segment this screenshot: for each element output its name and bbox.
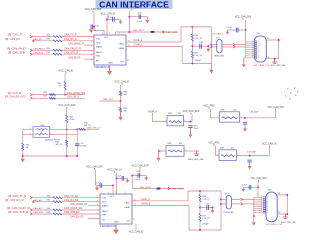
- wire CANL exit: [211, 44, 216, 46]
- ground below U31: [107, 65, 112, 75]
- ground shield row left: [157, 151, 161, 161]
- power net VCC_CAN_SUP (bottom): [132, 164, 149, 168]
- wire term2 right rail: [220, 191, 222, 230]
- resistor series CAN_TX_M: [53, 197, 62, 199]
- svg-text:CAN_WAKE_R: CAN_WAKE_R: [68, 42, 84, 45]
- wire divider1 mid: [120, 96, 122, 108]
- ESD suppressor Z31: [217, 39, 222, 53]
- wire term mid to cap: [192, 45, 208, 47]
- wire CANH2 to flag: [231, 203, 240, 205]
- svg-text:8: 8: [267, 210, 268, 212]
- svg-text:VCC_CAN_SUP: VCC_CAN_SUP: [59, 104, 76, 107]
- power net VCC_CAN_SUP (top): [123, 6, 140, 10]
- wire VCC to J32 bundle: [257, 182, 259, 198]
- L31 pin numbers: [30, 128, 52, 136]
- wire VCC_PRO to R39: [211, 109, 220, 118]
- wire divider1 bottom: [120, 112, 122, 117]
- svg-text:CANH: CANH: [124, 206, 130, 209]
- resistor R35 pulldown: [120, 108, 122, 113]
- svg-text:5: 5: [267, 205, 268, 207]
- svg-text:5: 5: [91, 45, 92, 47]
- wire CANL2 to bundle: [243, 198, 254, 200]
- resistor R45: [22, 143, 24, 150]
- svg-text:7: 7: [115, 192, 116, 194]
- wire VCC_PRO to R40: [216, 146, 219, 156]
- ground at C29: [119, 20, 123, 25]
- flag CAN_TERM: [162, 31, 164, 33]
- svg-text:CAN_TERM: CAN_TERM: [166, 31, 178, 34]
- wire CAN_FAULT_R2 to U pin: [62, 209, 100, 211]
- svg-text:2: 2: [258, 43, 259, 45]
- junction shield top: [278, 39, 280, 41]
- junction divider2: [64, 94, 66, 96]
- wire CAN_STB stub: [100, 100, 121, 102]
- power net VCC_CAN_SUP (choke): [59, 104, 76, 108]
- svg-text:CAN_TERM: CAN_TERM: [172, 188, 184, 191]
- svg-text:CANH_1: CANH_1: [134, 44, 144, 47]
- flag HS_CAN_L: [233, 43, 235, 45]
- svg-text:TJA1043TK/UX: TJA1043TK/UX: [100, 225, 116, 228]
- svg-text:7: 7: [258, 54, 259, 56]
- svg-text:6: 6: [267, 206, 268, 208]
- wire C39 branch: [117, 177, 128, 179]
- wire CANH corner down: [181, 46, 183, 63]
- flag CAN_TX_M: [30, 197, 32, 199]
- wire CANH to flag: [222, 46, 233, 48]
- wire CANH net: [126, 45, 182, 47]
- ground at C38: [95, 186, 99, 191]
- wire CANL corner up: [180, 27, 182, 42]
- svg-text:VCC_CAN_5V0: VCC_CAN_5V0: [86, 165, 103, 168]
- resistor R34 pullup: [120, 91, 122, 96]
- wire VSUP_F to R38: [152, 115, 167, 122]
- ground term bottom: [209, 67, 213, 74]
- wire CANL net: [126, 41, 181, 43]
- wire CAN_TX to resistor: [33, 36, 54, 38]
- power net VCC_CAN_5V0 (connector): [235, 16, 252, 20]
- svg-text:CANL: CANL: [118, 43, 124, 46]
- svg-text:PESD1CAN: PESD1CAN: [214, 55, 224, 58]
- svg-text:S2: S2: [278, 212, 280, 214]
- svg-text:VCC_CAN_SUP: VCC_CAN_SUP: [183, 110, 200, 113]
- svg-text:[R] CAN_TX_M: [R] CAN_TX_M: [8, 194, 26, 198]
- svg-text:9: 9: [252, 57, 253, 59]
- ground at C36: [226, 30, 230, 35]
- svg-text:PESD1CAN: PESD1CAN: [224, 211, 234, 214]
- wire term resistor rail top: [191, 27, 193, 34]
- wire CAN_STB_R to U pin: [62, 53, 94, 55]
- wire C38 branch: [96, 185, 113, 187]
- svg-text:1: 1: [91, 37, 92, 39]
- common mode choke L31: [33, 127, 49, 138]
- svg-text:6: 6: [258, 51, 259, 53]
- resistor R37 termination: [191, 51, 193, 58]
- flag CAN_TERM2: [168, 187, 170, 189]
- wire to VCC_CAN_IO label: [268, 146, 270, 156]
- wire U32 GND stub: [115, 224, 117, 230]
- svg-text:VCC_CAN_IO: VCC_CAN_IO: [101, 13, 116, 16]
- ground term cap: [206, 48, 210, 53]
- power net VCC_CAN_IO (top): [101, 13, 116, 17]
- title CAN INTERFACE: [96, 0, 173, 10]
- ground at C43: [144, 176, 148, 181]
- connector J32 DSUB9: [263, 192, 277, 222]
- resistor R50 termination: [199, 195, 201, 203]
- wire VCC_CAN_SUP rail: [128, 11, 130, 33]
- resistor R27: [49, 97, 55, 99]
- svg-text:0.1uF: 0.1uF: [227, 27, 233, 29]
- svg-text:9: 9: [97, 218, 98, 220]
- wire J31 shield top: [266, 39, 278, 41]
- svg-text:CAN_STB: CAN_STB: [33, 51, 44, 54]
- junction rail/R chain: [66, 155, 68, 157]
- svg-text:2.2K_1%: 2.2K_1%: [195, 55, 203, 57]
- capacitor C28 0.1uF: [91, 24, 93, 29]
- wire SUP chain bottom: [66, 147, 68, 156]
- svg-text:7: 7: [267, 208, 268, 210]
- svg-text:2: 2: [267, 199, 268, 201]
- wire SUP chain mid: [66, 123, 68, 141]
- junction term2 bottom: [199, 229, 201, 231]
- svg-text:CAN_RX: CAN_RX: [33, 38, 42, 41]
- svg-text:VCC_CAN_IO: VCC_CAN_IO: [262, 143, 277, 146]
- wire CAN_FAULT_M to resistor: [33, 209, 54, 211]
- flag CAN_FAULT_M: [30, 209, 32, 211]
- svg-text:CAN_SPLIT: CAN_SPLIT: [140, 186, 153, 189]
- flag CAN_RX: [32, 40, 34, 42]
- wire term2 mid to cap: [200, 207, 213, 209]
- wire CAN_STB_M to resistor: [33, 213, 54, 215]
- svg-text:[R] CAN_IN: [R] CAN_IN: [8, 92, 21, 95]
- wire CAN_TX_M to resistor: [33, 197, 54, 199]
- resistor series CAN_TX: [53, 36, 62, 38]
- ground shield rail: [21, 156, 25, 162]
- svg-text:VCC_CAN_5V0: VCC_CAN_5V0: [267, 106, 284, 109]
- svg-text:0.1uF: 0.1uF: [137, 21, 143, 23]
- svg-text:4: 4: [91, 41, 92, 43]
- svg-text:RXD: RXD: [96, 42, 101, 44]
- wire CANH to bundle: [235, 46, 245, 48]
- svg-text:CAN_SPLIT: CAN_SPLIT: [133, 29, 146, 32]
- wire J32 gnd drop: [253, 216, 255, 222]
- wire CANL to bundle: [235, 44, 245, 46]
- wire term top link: [181, 26, 211, 28]
- svg-text:GND: GND: [108, 63, 113, 65]
- wire CAN_RX_INT row: [33, 97, 85, 99]
- svg-text:[R] CAN_RX_INT0: [R] CAN_RX_INT0: [5, 96, 26, 99]
- svg-text:1: 1: [217, 116, 218, 118]
- shield ground symbol (top connector): [272, 59, 277, 64]
- svg-text:[R] CAN_RX: [R] CAN_RX: [5, 37, 20, 41]
- capacitor C31 10uF: [188, 126, 192, 128]
- svg-text:S1: S1: [267, 38, 269, 40]
- ground at C39: [126, 178, 129, 183]
- wire J32 pin bundle: [253, 197, 255, 216]
- resistor pack R41 box: [166, 145, 184, 156]
- svg-text:CAN_SHLD_F: CAN_SHLD_F: [87, 126, 102, 129]
- capacitor C32 4700pF: [75, 144, 79, 146]
- junction choke top/cap branch: [76, 128, 78, 130]
- ground at C37: [248, 162, 252, 169]
- wire R45 bottom stub: [22, 150, 24, 156]
- svg-text:2.2K_1%: 2.2K_1%: [195, 38, 203, 40]
- wire term2 rail bottom: [199, 222, 201, 231]
- wire CANL to flag: [222, 44, 233, 46]
- svg-text:FAULT: FAULT: [102, 210, 109, 213]
- junction VCC/C36: [245, 29, 247, 31]
- resistor series CAN_RX: [53, 40, 62, 42]
- flag CAN_RX_M: [32, 201, 34, 203]
- svg-text:1: 1: [267, 197, 268, 199]
- wire L31 pin4 out: [49, 128, 99, 130]
- svg-text:CAN_FLT: CAN_FLT: [33, 207, 43, 210]
- wire term right rail: [210, 27, 212, 67]
- wire R39 to VCC_CAN_5V0: [240, 117, 276, 119]
- wire term2 bottom link: [189, 229, 221, 231]
- svg-text:3: 3: [108, 192, 109, 194]
- svg-text:WAKE: WAKE: [102, 205, 109, 208]
- svg-text:[R] CAN_FAULT: [R] CAN_FAULT: [7, 46, 27, 50]
- wire CAN_EN_R2 to U32: [88, 217, 100, 219]
- power net VCC_CAN_IO (row B): [262, 143, 277, 147]
- wire CANH exit: [211, 46, 216, 48]
- junction U32 supply rail: [131, 175, 133, 177]
- wire VCC_CAN_5V0 to U31 pin 3: [94, 13, 104, 36]
- svg-text:VCC_CAN_SUP: VCC_CAN_SUP: [123, 6, 140, 9]
- wire U32 VIO stub: [135, 224, 137, 230]
- wire L31 pin1: [23, 128, 33, 130]
- svg-text:CAN_FAULT: CAN_FAULT: [33, 47, 46, 50]
- power net VSUP_F: [148, 112, 158, 115]
- resistor R32 pullup: [64, 81, 66, 90]
- power net VCC_CAN_5V0 (top): [85, 8, 102, 12]
- svg-text:8: 8: [91, 51, 92, 53]
- svg-text:RXD: RXD: [102, 201, 107, 203]
- shield ground symbol (bottom connector): [283, 214, 288, 218]
- ground term2 cap: [211, 209, 215, 214]
- flag shield row input: [158, 150, 160, 152]
- power net VCC_CAN_SUP (mid): [183, 110, 200, 114]
- ground at C34: [243, 125, 247, 132]
- wire CAN_WAKE_R to U31: [84, 44, 94, 46]
- svg-text:C34 10uF: C34 10uF: [250, 112, 260, 114]
- wire CAN_TX_R to U pin: [62, 36, 94, 38]
- svg-text:SHLD_GND_CAN: SHLD_GND_CAN: [281, 221, 296, 224]
- wire shield bottom rail: [23, 155, 78, 157]
- resistor pack R40 box: [219, 150, 237, 161]
- wire term2 top link: [188, 190, 221, 192]
- svg-text:[R] CAN_STB: [R] CAN_STB: [8, 50, 25, 54]
- svg-text:1: 1: [258, 41, 259, 43]
- svg-text:9: 9: [267, 212, 268, 214]
- wire VCC5V0 rail bottom: [95, 170, 97, 186]
- svg-text:S2: S2: [267, 57, 269, 59]
- junction exit CANH: [210, 46, 212, 48]
- svg-text:VCC_CAN_5V0: VCC_CAN_5V0: [85, 8, 102, 11]
- wire L31 pin2: [23, 134, 33, 136]
- svg-text:WAKE: WAKE: [96, 46, 103, 49]
- svg-text:TXD: TXD: [96, 38, 101, 40]
- power net VCC_PRO (row A): [203, 106, 214, 109]
- resistor pack R39 box: [220, 112, 240, 122]
- svg-text:VCC_CAN_IO: VCC_CAN_IO: [59, 70, 74, 73]
- svg-text:7: 7: [109, 33, 110, 35]
- junction divider1: [120, 100, 122, 102]
- svg-text:3: 3: [267, 201, 268, 203]
- svg-text:S1: S1: [278, 193, 280, 195]
- wire term2 rail top: [199, 191, 201, 195]
- junction shield bottom: [274, 58, 276, 60]
- junction C41/gnd node: [212, 207, 214, 209]
- capacitor C37 10uF: [247, 160, 251, 162]
- wire VCCIO rail bottom: [116, 173, 118, 194]
- svg-text:VCC_CAN_5V0: VCC_CAN_5V0: [235, 16, 252, 19]
- capacitor C35 termination: [200, 44, 202, 49]
- wire CANL2 exit: [221, 198, 226, 200]
- svg-text:36K_1%: 36K_1%: [56, 144, 63, 146]
- svg-text:4700pF: 4700pF: [80, 146, 87, 148]
- svg-text:CON_DSUB_9_M: CON_DSUB_9_M: [265, 224, 282, 226]
- wire CANH2 corner down: [188, 205, 190, 230]
- wire C31 gnd stub: [189, 128, 191, 135]
- capacitor C29 0.1uF: [113, 17, 115, 22]
- svg-text:VCC: VCC: [104, 37, 109, 39]
- junction cap/gnd node: [207, 45, 209, 47]
- svg-text:2.2K_1%: 2.2K_1%: [202, 198, 210, 200]
- ground at C42: [242, 187, 246, 192]
- svg-text:4: 4: [258, 47, 259, 49]
- wire J32 shield top: [277, 194, 287, 196]
- flag HS_CAN_H2: [241, 203, 243, 205]
- wire CANL2 net: [132, 200, 188, 202]
- junction split/VSUP rail: [128, 31, 130, 33]
- red marker cluster: [285, 87, 299, 101]
- svg-text:SHLD_GND_CAN: SHLD_GND_CAN: [188, 158, 204, 161]
- svg-text:EN: EN: [96, 61, 99, 63]
- capacitor C41 termination: [207, 205, 209, 210]
- junction rail left: [22, 155, 24, 157]
- wire shield row right: [184, 150, 199, 152]
- junction choke top/Rchain: [66, 128, 68, 130]
- svg-text:2012: 2012: [41, 125, 45, 127]
- svg-text:0.1uF: 0.1uF: [96, 183, 102, 185]
- junction C37 node: [249, 155, 251, 157]
- svg-text:VCC: VCC: [110, 196, 115, 198]
- svg-text:VCC_CAN_SUP: VCC_CAN_SUP: [132, 164, 149, 167]
- svg-text:FAULT: FAULT: [96, 51, 103, 54]
- power net VCC_CAN_5V0 (row A): [267, 106, 284, 110]
- wire VCC to J pin bundle: [245, 20, 247, 42]
- svg-text:C37 10uF: C37 10uF: [247, 151, 257, 153]
- svg-text:2: 2: [125, 192, 126, 194]
- svg-text:CAN_EN_R: CAN_EN_R: [68, 56, 81, 59]
- ferrite bead FB32: [157, 188, 161, 190]
- resistor series CAN_FAULT_M: [53, 209, 62, 211]
- CAN transceiver U31: [94, 35, 126, 65]
- svg-text:1: 1: [217, 154, 218, 156]
- wire CAN_RX to resistor: [33, 40, 54, 42]
- wire cap C29 branch: [107, 19, 121, 21]
- svg-text:3: 3: [102, 33, 103, 35]
- resistor R42: [66, 115, 68, 123]
- svg-text:4700pF: 4700pF: [195, 60, 202, 62]
- svg-text:VIO: VIO: [126, 221, 130, 223]
- wire CAN_FAULT to resistor: [33, 49, 54, 51]
- svg-text:EN: EN: [102, 220, 105, 222]
- svg-text:[R] CAN_TX: [R] CAN_TX: [8, 33, 23, 37]
- wire CAN_RX_R2 to U pin: [62, 201, 100, 203]
- svg-text:CANL_2: CANL_2: [141, 198, 150, 201]
- wire C36 branch: [228, 29, 246, 31]
- svg-text:GND: GND: [114, 222, 119, 224]
- wire CAN_RX_M to resistor: [33, 201, 54, 203]
- svg-text:CANL_1: CANL_1: [134, 39, 143, 42]
- wire to VCC_CAN_5V0 label: [275, 110, 277, 118]
- junction VCC_CAN_IO/C29: [106, 19, 108, 21]
- junction shield2 bottom: [286, 213, 288, 215]
- junction shield2 top: [286, 194, 288, 196]
- wire U32 supply rail: [131, 176, 133, 189]
- svg-text:9: 9: [91, 59, 92, 61]
- svg-text:CAN_STB: CAN_STB: [33, 211, 44, 214]
- wire VCC_CAN_IO rail: [106, 17, 108, 35]
- ground J32 pin: [252, 222, 256, 226]
- wire shield row left: [159, 150, 167, 152]
- resistor R41: [168, 150, 182, 152]
- svg-text:VCC_CAN_IO: VCC_CAN_IO: [129, 231, 144, 234]
- wire C30 filter row: [129, 16, 147, 18]
- wire CANH2 to bundle: [243, 203, 254, 205]
- capacitor C42 0.1uF: [249, 185, 251, 190]
- svg-text:1: 1: [165, 120, 166, 122]
- shield ground symbol (mid row): [194, 151, 199, 155]
- junction term2 mid: [199, 207, 201, 209]
- svg-text:TXD: TXD: [102, 197, 107, 199]
- svg-text:6: 6: [91, 55, 92, 57]
- wire CAN_FAULT_R to U pin: [62, 49, 94, 51]
- svg-text:11: 11: [133, 219, 135, 221]
- svg-text:CAN_STB_R: CAN_STB_R: [64, 51, 78, 54]
- wire CANH2 net: [132, 204, 189, 206]
- svg-text:4: 4: [267, 203, 268, 205]
- junction exit CANH2: [220, 203, 222, 205]
- svg-text:[R] CAN_RX_M: [R] CAN_RX_M: [5, 198, 24, 202]
- svg-text:[R] CAN_STB_M: [R] CAN_STB_M: [8, 210, 28, 214]
- flag CAN_FAULT: [30, 49, 32, 51]
- capacitor C36 0.1uF: [237, 28, 239, 33]
- svg-text:[R] CAN_FAULT_M: [R] CAN_FAULT_M: [7, 206, 30, 210]
- junction VCC_CAN_SUP node: [189, 121, 191, 123]
- connector J31 DSUB9: [254, 36, 266, 62]
- junction exit CANL2: [220, 198, 222, 200]
- svg-text:VCC_CAN_IO: VCC_CAN_IO: [107, 169, 122, 172]
- junction term bottom: [191, 62, 193, 64]
- svg-text:1: 1: [164, 149, 165, 151]
- svg-text:VCC_CAN_IO: VCC_CAN_IO: [115, 81, 130, 84]
- svg-text:CANL: CANL: [124, 202, 130, 205]
- svg-text:CAN_WAKE_3V3: CAN_WAKE_3V3: [67, 92, 86, 95]
- svg-text:STB: STB: [96, 56, 101, 58]
- resistor series CAN_STB_M: [53, 213, 62, 215]
- svg-text:CON_DSUB_9_M: CON_DSUB_9_M: [253, 65, 270, 67]
- svg-text:4700pF: 4700pF: [202, 223, 209, 225]
- svg-text:8: 8: [258, 56, 259, 58]
- wire J32 shield right: [286, 195, 288, 214]
- junction term top: [191, 26, 193, 28]
- wire CAN_STB_R2 to U pin: [62, 213, 100, 215]
- svg-text:CAN_RX_R: CAN_RX_R: [67, 96, 80, 99]
- ground divider1: [118, 112, 122, 121]
